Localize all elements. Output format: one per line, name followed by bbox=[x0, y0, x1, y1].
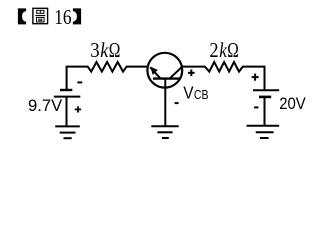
transistor Q1 emitter arrow bbox=[150, 67, 157, 75]
battery V2 minus sign bbox=[254, 106, 258, 108]
battery V1 plus sign bbox=[75, 106, 81, 112]
battery V2 plus sign bbox=[252, 74, 259, 81]
transistor Q1 circle bbox=[147, 53, 182, 88]
title bracket right 】 bbox=[73, 8, 81, 24]
svg-text:3: 3 bbox=[90, 38, 99, 62]
svg-text:CB: CB bbox=[194, 87, 209, 102]
svg-text:Ω: Ω bbox=[109, 38, 121, 62]
wire battery V2 to ground bbox=[264, 97, 266, 126]
label 3kΩ for R1 bbox=[90, 38, 120, 62]
label 2kΩ for R2 bbox=[209, 38, 238, 62]
ground (left) bbox=[55, 126, 80, 138]
transistor Q1 collector line bbox=[170, 67, 182, 78]
svg-text:k: k bbox=[219, 38, 227, 62]
wire: left vertical + top-left corner + resistor R1 zigzag + wire to transistor bbox=[67, 62, 148, 89]
wire battery V1 to ground bbox=[66, 97, 68, 126]
title glyph 圖 bbox=[33, 8, 48, 23]
ground (right) bbox=[247, 126, 280, 138]
transistor Q1 base lead wire bbox=[164, 79, 166, 126]
transistor Q1 emitter line bbox=[150, 67, 160, 78]
ground (middle, transistor base) bbox=[151, 126, 178, 138]
svg-text:Ω: Ω bbox=[227, 38, 239, 62]
svg-text:20V: 20V bbox=[279, 94, 306, 113]
svg-text:16: 16 bbox=[54, 5, 72, 29]
svg-text:V: V bbox=[183, 83, 194, 103]
title bracket left 【 bbox=[18, 8, 26, 24]
battery V1 long plate (positive) bbox=[54, 96, 81, 98]
transistor Q1 base bar bbox=[153, 77, 180, 79]
wire: transistor right to resistor R2 zigzag + top-right corner + right vertical bbox=[182, 62, 265, 89]
battery V1 short plate (negative) bbox=[60, 89, 72, 91]
battery V2 short plate (negative) bbox=[259, 96, 271, 99]
battery V2 long plate (positive) bbox=[253, 89, 279, 91]
svg-text:2: 2 bbox=[209, 38, 218, 62]
label - (VCB minus, base side) bbox=[175, 102, 179, 104]
svg-text:9.7V: 9.7V bbox=[28, 97, 62, 115]
label + (VCB plus, collector side) bbox=[188, 70, 195, 77]
svg-text:k: k bbox=[100, 38, 108, 62]
battery V1 minus sign bbox=[77, 81, 82, 83]
